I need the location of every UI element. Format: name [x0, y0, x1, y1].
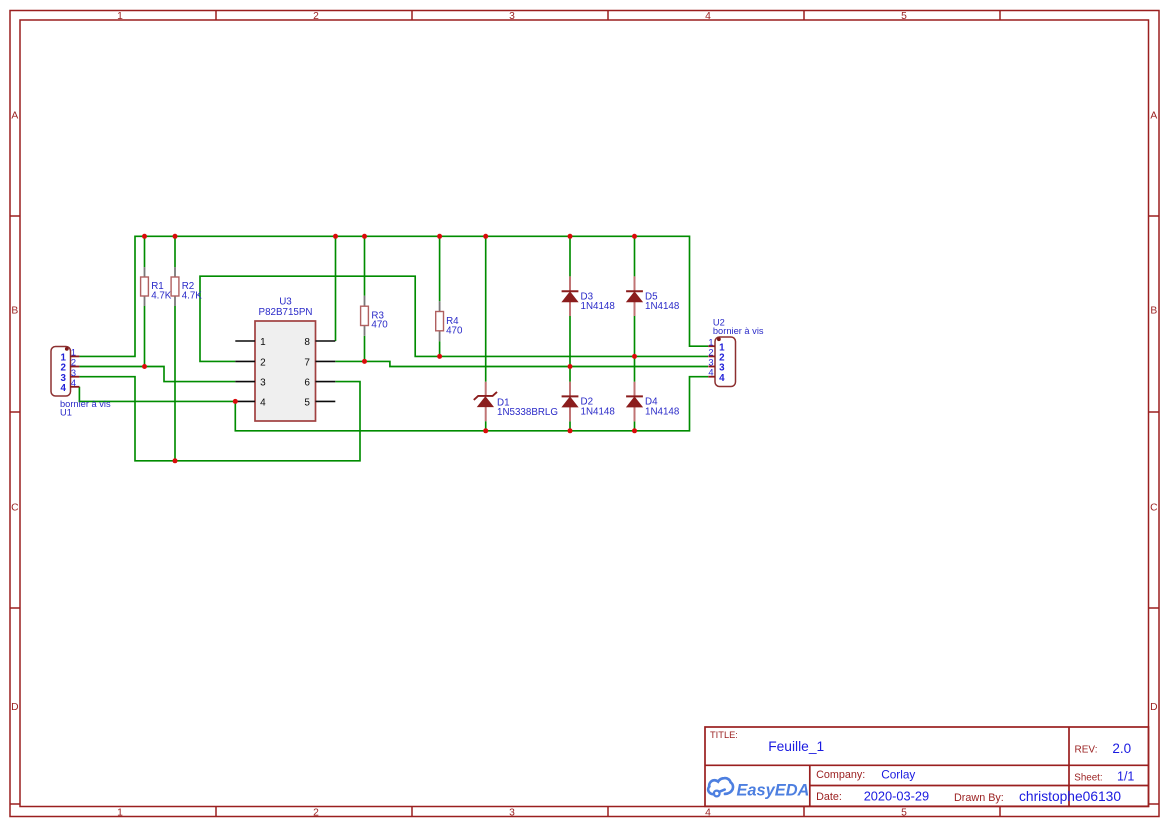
svg-text:1: 1 [71, 348, 76, 358]
wire: R3 top [364, 236, 366, 295]
svg-text:D: D [11, 702, 18, 713]
svg-text:6: 6 [304, 378, 310, 389]
svg-text:4.7K: 4.7K [182, 290, 203, 301]
junction: D5-D4 node [632, 354, 637, 359]
wire: D3 top from rail [569, 236, 571, 276]
svg-text:Feuille_1: Feuille_1 [768, 739, 824, 754]
junction: rail / R4 top [437, 234, 442, 239]
svg-text:5: 5 [901, 11, 907, 22]
svg-text:4: 4 [705, 11, 711, 22]
connector U2 bornier a vis [708, 318, 764, 387]
svg-text:2: 2 [260, 357, 266, 368]
wire: R3 bottom [364, 336, 366, 362]
svg-text:3: 3 [509, 808, 515, 819]
EasyEDA logo [708, 778, 809, 799]
svg-text:4: 4 [60, 383, 66, 394]
svg-text:Corlay: Corlay [881, 767, 915, 781]
svg-text:Date:: Date: [816, 791, 842, 803]
title block labels [710, 730, 1103, 804]
svg-text:4.7K: 4.7K [151, 290, 172, 301]
wire: D1 top from rail [485, 236, 487, 381]
wire: R4 top [439, 236, 441, 301]
svg-text:2: 2 [708, 347, 713, 357]
svg-text:5: 5 [304, 397, 310, 408]
wire: D4 top from node [634, 356, 636, 381]
wire: R1 bottom [144, 306, 146, 367]
junction: R2 bottom / bottom wire [173, 458, 178, 463]
svg-text:4: 4 [260, 397, 266, 408]
svg-text:8: 8 [304, 337, 310, 348]
U3 pin 4 [235, 397, 266, 408]
svg-text:5: 5 [901, 808, 907, 819]
junction: R1 bottom / U1.2 net [142, 364, 147, 369]
svg-text:7: 7 [304, 357, 310, 368]
junction: U3 pin 4 node [233, 399, 238, 404]
svg-text:3: 3 [708, 358, 713, 368]
junction: rail / R2 top [173, 234, 178, 239]
svg-text:christophe06130: christophe06130 [1019, 789, 1121, 804]
svg-text:2: 2 [313, 808, 319, 819]
wire: U3.7 to U2.3 with jog [335, 361, 708, 366]
diode D3 [562, 276, 616, 316]
svg-text:2: 2 [71, 358, 76, 368]
diode D5 [626, 276, 680, 316]
junction: R3 bottom / U3.7 net [362, 359, 367, 364]
svg-text:1/1: 1/1 [1117, 770, 1134, 784]
svg-text:bornier à vis: bornier à vis [713, 326, 764, 336]
svg-text:3: 3 [509, 11, 515, 22]
IC U3 P82B715PN [255, 297, 316, 421]
wire: D1 bottom [485, 421, 487, 431]
wire: U3.8 up to rail [335, 236, 337, 341]
svg-text:B: B [1150, 306, 1157, 317]
junction: rail / R1 top [142, 234, 147, 239]
resistor R3 [361, 296, 389, 336]
wire: D5 bottom to node [634, 316, 636, 356]
junction: rail / R3 top [362, 234, 367, 239]
junction: D3-D2 node [568, 364, 573, 369]
svg-text:1N4148: 1N4148 [645, 301, 680, 312]
junction: D1 bottom / bus [483, 428, 488, 433]
wire: U1.3 down and along bottom to U3.6 [79, 377, 360, 461]
svg-text:1: 1 [708, 337, 713, 347]
svg-text:1N4148: 1N4148 [581, 301, 616, 312]
svg-text:4: 4 [71, 378, 76, 388]
resistor R1 [141, 267, 172, 306]
frame row labels right [1150, 111, 1158, 714]
wire: top supply rail with U1.1 and U2.1 ends [79, 236, 708, 356]
svg-text:Company:: Company: [816, 769, 865, 781]
wire: R1 top [144, 236, 146, 267]
svg-text:1: 1 [260, 337, 266, 348]
junction: R4 bottom / U2.2 net [437, 354, 442, 359]
svg-text:U1: U1 [60, 407, 72, 417]
wire: D5 top from rail [634, 236, 636, 276]
svg-text:2: 2 [313, 11, 319, 22]
resistor R2 [171, 267, 202, 306]
svg-text:1N4148: 1N4148 [581, 406, 616, 417]
svg-text:3: 3 [260, 378, 266, 389]
svg-text:4: 4 [705, 808, 711, 819]
svg-text:1N4148: 1N4148 [645, 406, 680, 417]
wire: D4 bottom [634, 421, 636, 430]
U3 pin 7 [304, 357, 335, 368]
svg-text:EasyEDA: EasyEDA [737, 781, 810, 799]
U3 pin 1 [235, 337, 266, 348]
title block [705, 727, 1149, 806]
wire: R2 top [174, 236, 176, 267]
zener diode D1 [474, 382, 558, 421]
diode D2 [562, 382, 616, 422]
U3 pin 3 [235, 378, 266, 389]
svg-text:2020-03-29: 2020-03-29 [864, 788, 929, 803]
junction: D2 bottom / bus [568, 428, 573, 433]
wire: U3.4 node down along bottom bus to U2.4 [235, 377, 708, 431]
diode D4 [626, 382, 680, 422]
junction: rail / D1 top [483, 234, 488, 239]
svg-text:1N5338BRLG: 1N5338BRLG [497, 407, 558, 418]
svg-text:C: C [1150, 503, 1158, 514]
U3 pin 8 [304, 337, 335, 348]
U3 pin 5 [304, 397, 335, 408]
resistor R4 [436, 301, 463, 341]
svg-text:REV:: REV: [1075, 745, 1098, 756]
svg-text:Drawn By:: Drawn By: [954, 792, 1004, 804]
svg-text:A: A [1150, 111, 1157, 122]
wire: U1.2 to U3.3 with jog [79, 367, 235, 382]
junction: rail / D3 top [568, 234, 573, 239]
junction: rail / U3 pin 8 [333, 234, 338, 239]
svg-text:B: B [11, 306, 18, 317]
wire: U3.2 up over and down to U2.2 line [200, 276, 708, 361]
svg-text:A: A [11, 111, 18, 122]
svg-text:C: C [11, 503, 19, 514]
svg-text:1: 1 [117, 808, 123, 819]
connector U1 bornier a vis [51, 347, 111, 418]
svg-text:470: 470 [446, 325, 463, 336]
wire: D2 bottom [569, 421, 571, 430]
svg-text:4: 4 [708, 368, 713, 378]
wire: D3 bottom to node [569, 316, 571, 367]
frame column labels top [117, 11, 907, 22]
frame column labels bottom [117, 808, 907, 819]
frame row labels left [11, 111, 19, 714]
junction: D4 bottom / bus [632, 428, 637, 433]
title block values [768, 739, 1134, 804]
svg-text:3: 3 [71, 368, 76, 378]
wire: D2 top from node [569, 367, 571, 382]
svg-text:D: D [1150, 702, 1157, 713]
U3 pin 2 [235, 357, 266, 368]
svg-text:470: 470 [371, 320, 388, 331]
junction: rail / D5 top [632, 234, 637, 239]
svg-text:Sheet:: Sheet: [1074, 773, 1102, 784]
svg-text:4: 4 [719, 373, 725, 384]
wire: R2 bottom [174, 306, 176, 461]
wire: R4 bottom [439, 341, 441, 356]
U3 pin 6 [304, 378, 335, 389]
svg-text:2.0: 2.0 [1112, 741, 1131, 756]
svg-text:P82B715PN: P82B715PN [259, 307, 313, 318]
svg-text:TITLE:: TITLE: [710, 730, 738, 740]
wire: U1.4 to U3.4 [79, 387, 235, 402]
svg-text:1: 1 [117, 11, 123, 22]
